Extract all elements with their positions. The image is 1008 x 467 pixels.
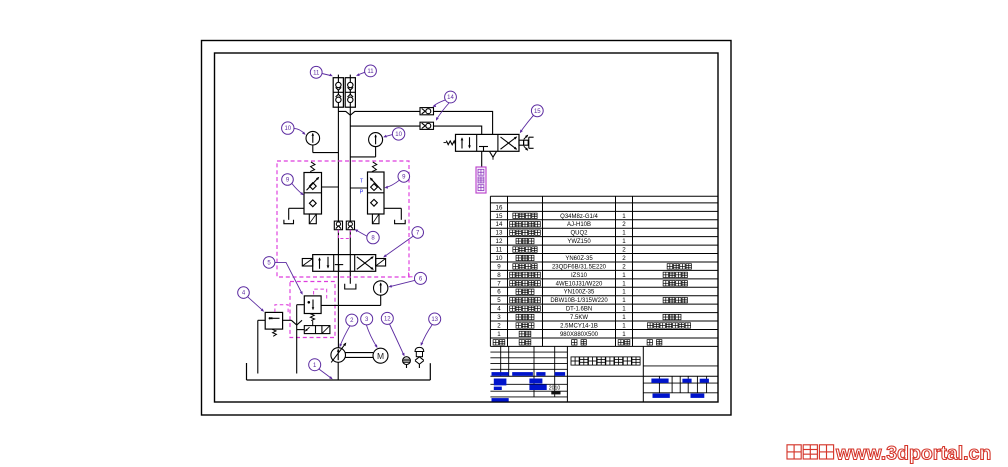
svg-text:1: 1 (622, 272, 626, 279)
svg-text:6: 6 (497, 289, 501, 296)
wire A-line vertical x338 (337, 107, 339, 347)
balloon 11 (365, 65, 377, 77)
wire valve4 left to tank (258, 319, 265, 321)
air filter 13 (415, 347, 424, 351)
leader balloon 13 (421, 325, 432, 345)
balloon 9 (282, 174, 294, 186)
svg-text:10: 10 (284, 126, 291, 132)
remote pressure valve 4 body (265, 312, 282, 329)
svg-text:2.5MCY14-1B: 2.5MCY14-1B (560, 323, 598, 329)
svg-text:1: 1 (622, 322, 626, 329)
title block blue stamps (492, 372, 509, 376)
svg-text:QUQ2: QUQ2 (570, 231, 588, 237)
balloon 14 (445, 91, 457, 103)
check valve 14 bottom (420, 122, 434, 129)
valve 4 spring (272, 329, 276, 336)
balloon 6 (415, 272, 427, 284)
pilot operated check valve 8 right (346, 221, 354, 230)
svg-text:11: 11 (313, 70, 320, 76)
balloon 10 (392, 128, 404, 140)
title block right grid (643, 382, 718, 384)
leader balloon 15 (521, 115, 534, 132)
wire relief out to P-line and gauge 6 (321, 304, 381, 306)
svg-text:10: 10 (395, 132, 402, 138)
drain funnel junction (291, 320, 302, 325)
svg-text:1: 1 (622, 314, 626, 321)
balloon 7 (412, 227, 424, 239)
directional valve body (near 15) (456, 134, 520, 151)
svg-text:2: 2 (622, 255, 626, 262)
balloon 2 (346, 314, 358, 326)
level gauge 12 (403, 357, 411, 365)
svg-text:2010: 2010 (549, 385, 561, 391)
svg-text:8: 8 (497, 272, 501, 279)
valve middle cell blocked port (479, 146, 488, 148)
svg-text:3: 3 (497, 314, 501, 321)
svg-text:1: 1 (622, 238, 626, 245)
wire valve4 right to funnel (283, 319, 292, 321)
leader balloon 7 (384, 236, 413, 257)
svg-text:YN100Z-35: YN100Z-35 (564, 290, 595, 296)
svg-text:12: 12 (384, 316, 391, 322)
leader balloon 6 (390, 280, 415, 286)
leader balloon 4 (248, 297, 264, 311)
pump 2 (331, 348, 346, 363)
watermark logo text (787, 445, 801, 459)
valve left cell arrows (461, 138, 463, 148)
dashed pilot hook on valve4 (275, 305, 288, 315)
manual ball valve 15 (519, 140, 524, 145)
pump suction wire (337, 362, 339, 380)
svg-text:1: 1 (497, 331, 501, 338)
svg-text:AJ-H10B: AJ-H10B (567, 222, 591, 228)
balloon 15 (531, 105, 543, 117)
svg-text:1: 1 (622, 331, 626, 338)
svg-text:14: 14 (447, 95, 454, 101)
leader balloon 3 (366, 325, 376, 347)
balloon 1 (309, 359, 321, 371)
balloon 10 (282, 122, 294, 134)
drawing outer border frame (202, 41, 732, 416)
wire 9L to tank (289, 207, 304, 209)
pressure gauge 10 left (306, 131, 320, 145)
check valve 14 top (420, 108, 434, 115)
svg-text:2: 2 (497, 322, 501, 329)
leader balloon 11 right (358, 72, 365, 75)
balloon 11 (310, 66, 322, 78)
svg-text:YN60Z-35: YN60Z-35 (565, 256, 593, 262)
svg-text:YWZ150: YWZ150 (567, 239, 591, 245)
bleed valve label box (476, 167, 486, 193)
svg-text:9: 9 (497, 263, 501, 270)
svg-text:IZS10: IZS10 (571, 273, 588, 279)
svg-text:5: 5 (497, 297, 501, 304)
svg-text:1: 1 (622, 306, 626, 313)
svg-text:DBW10B-1/315W220: DBW10B-1/315W220 (550, 298, 608, 304)
drawing inner border frame (215, 53, 719, 402)
dashed enclosure box 2 (290, 282, 335, 338)
leader balloon 10 right (384, 135, 392, 137)
relief valve 5 spring (310, 314, 315, 321)
parts list table (490, 195, 718, 197)
tank port V under valve (490, 152, 497, 158)
leader balloon 9 left (292, 183, 303, 194)
wire relief drain left (297, 304, 305, 306)
leader balloon 14 to bottom check (437, 103, 450, 120)
balloon 13 (429, 313, 441, 325)
svg-text:Q34M8z-G1/4: Q34M8z-G1/4 (560, 214, 598, 220)
wire line1 with crossover hop (338, 111, 492, 134)
svg-text:13: 13 (496, 230, 503, 237)
svg-text:14: 14 (496, 221, 503, 228)
quick coupler 11 right (345, 78, 355, 108)
pressure gauge 6 (374, 281, 388, 295)
svg-text:15: 15 (534, 109, 541, 115)
pressure gauge 10 right (369, 133, 383, 147)
leader balloon 9 right (386, 180, 400, 187)
shaft coupling (346, 352, 374, 354)
leader balloon 5 (275, 262, 302, 293)
solenoid ball valve 9 right (372, 162, 377, 172)
balloon 4 (238, 287, 250, 299)
leader balloon 11 left (322, 74, 331, 76)
wire line2 (350, 126, 481, 134)
dashed pilot hook on relief (314, 289, 327, 300)
motor 3 (373, 348, 388, 363)
svg-text:1: 1 (622, 289, 626, 296)
dashed enclosure box 1 (277, 161, 409, 277)
leader balloon 10 left (294, 128, 305, 134)
balloon 5 (263, 257, 275, 269)
svg-text:DT-1.6BN: DT-1.6BN (566, 307, 592, 313)
balloon 8 (367, 231, 379, 243)
oil tank 1 (247, 379, 431, 381)
balloon 12 (381, 312, 393, 324)
tank symbol 9R (395, 220, 406, 224)
svg-text:10: 10 (496, 255, 503, 262)
svg-text:1: 1 (622, 297, 626, 304)
valve right cell crossed arrows (501, 137, 517, 149)
svg-text:1: 1 (622, 213, 626, 220)
svg-text:4WE10J31/W220: 4WE10J31/W220 (556, 281, 603, 287)
relief valve 5 body (304, 296, 321, 314)
svg-text:M: M (377, 351, 384, 361)
svg-text:11: 11 (496, 247, 503, 254)
tank symbol T drain (345, 284, 356, 289)
svg-text:15: 15 (496, 213, 503, 220)
svg-text:7: 7 (497, 280, 501, 287)
svg-text:23QDF6B/31.5E220: 23QDF6B/31.5E220 (552, 264, 607, 270)
black stamp (551, 391, 560, 394)
tank symbol 9L (284, 220, 294, 224)
svg-text:2: 2 (622, 247, 626, 254)
title block grid (566, 346, 568, 402)
balloon 3 (361, 313, 373, 325)
svg-text:16: 16 (496, 204, 503, 211)
leader balloon 8 (356, 230, 367, 236)
balloon 9 (398, 171, 410, 183)
svg-text:2: 2 (622, 263, 626, 270)
leader balloon 12 (390, 324, 405, 355)
dashed pilot box under 8 (338, 230, 350, 239)
pilot operated check valve 8 left (334, 221, 342, 230)
svg-text:13: 13 (431, 317, 438, 323)
wire 9R to B-line (350, 187, 367, 189)
leader balloon 1 (319, 369, 332, 379)
svg-text:11: 11 (367, 69, 374, 75)
solenoid directional valve 7 (313, 255, 376, 272)
wire 9L to A-line (322, 186, 339, 188)
relief valve 5 pilot solenoid (304, 326, 330, 334)
wire 9R to tank (384, 207, 401, 209)
table header row labels (493, 340, 498, 345)
svg-text:12: 12 (496, 238, 503, 245)
solenoid ball valve 9 left (310, 162, 315, 172)
bleed line (481, 151, 483, 167)
quick coupler 11 left (333, 78, 343, 108)
drawing title text (571, 357, 579, 365)
leader balloon 14 to top check (434, 100, 446, 106)
svg-text:4: 4 (497, 306, 501, 313)
leader balloon 2 (340, 326, 350, 346)
dashed tail box1 to balloon6 (409, 276, 414, 278)
valve spring left (446, 141, 455, 145)
svg-text:www.3dportal.cn: www.3dportal.cn (835, 443, 991, 465)
svg-text:7.5KW: 7.5KW (570, 315, 588, 321)
svg-text:980X880X500: 980X880X500 (560, 332, 599, 338)
wire B-line vertical x350 (349, 107, 351, 284)
svg-text:1: 1 (622, 280, 626, 287)
svg-text:1: 1 (622, 230, 626, 237)
svg-text:P: P (360, 190, 364, 196)
svg-text:2: 2 (622, 221, 626, 228)
